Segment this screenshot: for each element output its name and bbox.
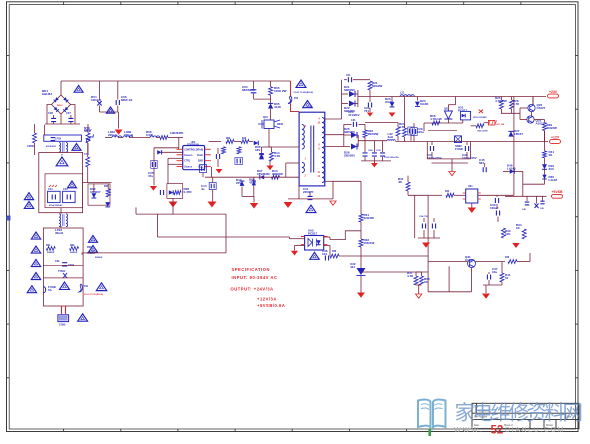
- svg-text:WWW.: WWW.: [454, 427, 484, 434]
- svg-text:+5V_SB: +5V_SB: [496, 124, 505, 126]
- svg-text:TVS02: TVS02: [58, 270, 66, 273]
- svg-text:SPECIFICATION: SPECIFICATION: [232, 267, 270, 272]
- svg-text:R40: R40: [505, 256, 510, 259]
- svg-text:SB5200: SB5200: [344, 130, 355, 134]
- svg-text:F02: F02: [294, 97, 299, 100]
- svg-text:681: 681: [479, 161, 484, 165]
- svg-text:4148: 4148: [249, 181, 256, 185]
- svg-text:620/2W: 620/2W: [372, 84, 383, 88]
- svg-text:T01: T01: [307, 106, 312, 109]
- svg-text:471/2KV: 471/2KV: [348, 113, 360, 117]
- svg-text:Q51: Q51: [444, 109, 449, 111]
- svg-text:F01: F01: [84, 285, 89, 288]
- svg-text:R10: R10: [242, 138, 247, 140]
- svg-text:731: 731: [364, 109, 369, 113]
- svg-text:20V: 20V: [549, 167, 554, 171]
- svg-text:C08: C08: [48, 111, 53, 115]
- svg-text:Fuseon: Fuseon: [184, 155, 193, 157]
- svg-text:L21: L21: [400, 92, 405, 95]
- svg-text:CONTROL: CONTROL: [184, 149, 196, 151]
- svg-text:4u: 4u: [201, 187, 205, 191]
- svg-text:PLUG TO 06.(BULK): PLUG TO 06.(BULK): [84, 294, 103, 296]
- svg-text:3uH: 3uH: [388, 135, 394, 139]
- svg-text:4.7K/1W: 4.7K/1W: [430, 117, 442, 121]
- svg-text:4.7K: 4.7K: [274, 154, 281, 158]
- svg-text:R01: R01: [46, 244, 51, 247]
- svg-text:30mH: 30mH: [55, 231, 63, 235]
- svg-text:TOP245YN: TOP245YN: [187, 144, 199, 147]
- svg-text:+5VSB/0.6A: +5VSB/0.6A: [257, 303, 285, 308]
- svg-text:560KW: 560KW: [70, 252, 78, 254]
- svg-text:R09: R09: [226, 138, 231, 140]
- svg-text:+5VSB: +5VSB: [552, 190, 563, 194]
- svg-text:L4148: L4148: [507, 167, 516, 171]
- svg-text:560KW: 560KW: [95, 257, 103, 259]
- svg-text:220uH: 220uH: [124, 133, 133, 137]
- svg-text:10K: 10K: [505, 232, 511, 236]
- svg-text:51: 51: [505, 276, 509, 280]
- svg-text:CX1: CX1: [48, 188, 53, 191]
- svg-text:2R2/2W: 2R2/2W: [368, 132, 379, 136]
- svg-text:+12V/3A: +12V/3A: [257, 296, 277, 301]
- svg-text:CTRL: CTRL: [184, 161, 191, 163]
- svg-text:GND: GND: [198, 161, 203, 163]
- svg-text:CX2: CX2: [63, 188, 68, 191]
- svg-text:470nF/250VAC: 470nF/250VAC: [49, 204, 63, 207]
- svg-text:C0R01: C0R01: [27, 145, 35, 148]
- svg-text:683/630V: 683/630V: [242, 88, 255, 92]
- svg-text:CY1: CY1: [84, 153, 89, 156]
- svg-text:18V: 18V: [255, 148, 260, 152]
- svg-text:DIANLU.COM: DIANLU.COM: [505, 427, 565, 434]
- svg-text:4.7K/1W: 4.7K/1W: [495, 99, 507, 103]
- svg-text:1000u/25V: 1000u/25V: [462, 156, 477, 160]
- svg-text:Drain: Drain: [197, 155, 203, 157]
- svg-text:SB5200: SB5200: [344, 154, 355, 158]
- svg-text:560/2W: 560/2W: [547, 126, 558, 130]
- svg-text:PLUG TO 0B-(BULK): PLUG TO 0B-(BULK): [294, 92, 314, 94]
- svg-text:220uH: 220uH: [108, 133, 117, 137]
- svg-text:C07: C07: [66, 111, 71, 115]
- svg-text:Q01: Q01: [263, 116, 268, 119]
- svg-text:R36: R36: [332, 251, 337, 253]
- svg-text:C34 C35: C34 C35: [419, 215, 428, 218]
- svg-text:CON1: CON1: [59, 324, 66, 327]
- svg-text:C03: C03: [55, 260, 60, 263]
- svg-text:C21: C21: [346, 74, 351, 77]
- svg-text:R32: R32: [445, 191, 450, 193]
- svg-text:10K/1W: 10K/1W: [364, 241, 375, 245]
- svg-text:100u: 100u: [417, 130, 424, 134]
- svg-text:0.47R: 0.47R: [184, 190, 193, 194]
- svg-text:L4148: L4148: [549, 178, 558, 182]
- svg-text:UG2D: UG2D: [385, 100, 394, 104]
- svg-text:OUTPUT: +24V/3A: OUTPUT: +24V/3A: [231, 287, 274, 292]
- svg-text:FR107: FR107: [514, 132, 523, 136]
- svg-text:470UF400V: 470UF400V: [46, 145, 57, 148]
- svg-text:104: 104: [322, 252, 327, 256]
- svg-text:MKP-X2: MKP-X2: [121, 98, 133, 102]
- svg-text:R02: R02: [70, 244, 75, 247]
- svg-text:DRAIN: DRAIN: [196, 148, 204, 151]
- svg-text:431: 431: [350, 265, 355, 269]
- svg-text:LF03: LF03: [55, 138, 61, 141]
- svg-text:100uF: 100uF: [490, 206, 499, 210]
- svg-text:LNK364PN: LNK364PN: [170, 131, 183, 135]
- svg-text:PC817: PC817: [458, 109, 468, 113]
- svg-text:VCC: VCC: [198, 167, 203, 169]
- svg-text:GBU8J: GBU8J: [42, 92, 52, 96]
- svg-text:18V/R2M: 18V/R2M: [257, 172, 270, 176]
- svg-text:R60 0OHM: R60 0OHM: [477, 131, 487, 133]
- svg-text:10D471: 10D471: [91, 98, 102, 102]
- svg-text:U31: U31: [468, 185, 473, 188]
- svg-text:220/4W: 220/4W: [364, 216, 375, 220]
- svg-text:FUSE: FUSE: [455, 147, 463, 151]
- svg-text:30R/2W: 30R/2W: [272, 172, 283, 176]
- svg-text:BD01: BD01: [57, 105, 63, 107]
- svg-text:47u: 47u: [148, 174, 153, 178]
- svg-text:INPUT: 90-264V AC: INPUT: 90-264V AC: [232, 275, 278, 280]
- svg-text:C219 1000u/25v: C219 1000u/25v: [384, 157, 400, 159]
- svg-text:0.5W: 0.5W: [146, 133, 153, 137]
- svg-text:2200PF: 2200PF: [303, 190, 314, 194]
- svg-text:52: 52: [491, 425, 504, 437]
- svg-text:+24V: +24V: [549, 90, 558, 94]
- svg-text:UG2D: UG2D: [420, 102, 429, 106]
- svg-text:Source: Source: [184, 167, 193, 169]
- svg-text:1N4007: 1N4007: [90, 190, 101, 194]
- svg-text:SB5200: SB5200: [344, 88, 355, 92]
- svg-text:网: 网: [563, 403, 584, 425]
- svg-text:20V: 20V: [236, 181, 241, 185]
- svg-text:560KW: 560KW: [47, 252, 55, 254]
- svg-text:100K 2W: 100K 2W: [274, 89, 287, 93]
- svg-text:4148: 4148: [274, 105, 281, 109]
- svg-text:C5027: C5027: [537, 106, 546, 110]
- svg-text:2N60: 2N60: [277, 123, 284, 126]
- svg-text:10u: 10u: [492, 270, 497, 274]
- svg-text:R55 4.7K/SMD: R55 4.7K/SMD: [473, 116, 487, 119]
- svg-text:+12V: +12V: [551, 135, 560, 139]
- svg-text:1000u/25V: 1000u/25V: [427, 156, 442, 160]
- svg-text:PC817: PC817: [308, 232, 318, 236]
- svg-text:C24: C24: [351, 119, 356, 122]
- svg-text:4.7K: 4.7K: [407, 274, 414, 278]
